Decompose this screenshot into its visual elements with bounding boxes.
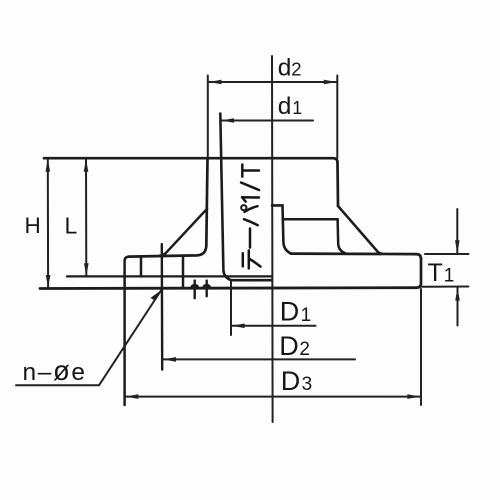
plate top left face and hub base fillet: [129, 158, 208, 256]
centerline: [271, 56, 274, 422]
right bore step: [272, 205, 291, 253]
svg-text:1: 1: [444, 266, 455, 287]
taper text katakana TE stroke group: [241, 165, 261, 269]
plate top right face: [291, 254, 421, 259]
svg-text:1: 1: [301, 305, 312, 326]
left transition slant: [160, 209, 208, 256]
rotated slash of taper label: [241, 183, 259, 191]
hub right outer edge: [336, 163, 339, 207]
plate left edge and D3 left extension: [125, 257, 129, 405]
D1 dimension line: [232, 325, 316, 327]
T1 upper extension: [425, 253, 469, 255]
d2 left extension: [207, 76, 209, 158]
katakana long vowel bar: [249, 229, 252, 248]
T1 upper arrow line: [456, 209, 458, 253]
n-Oe leader line: [16, 291, 161, 386]
svg-text:1: 1: [292, 98, 302, 118]
tapered bore wall with d1 extension and bore bottom fillet: [220, 114, 271, 281]
d2 dimension line: [209, 81, 337, 83]
D3 right extension: [420, 289, 422, 405]
thread end line (L extension): [67, 275, 272, 277]
H dimension line: [47, 159, 49, 288]
svg-text:d: d: [278, 54, 292, 81]
right inner wall with fillet: [338, 219, 347, 253]
katakana pa lower stroke: [244, 219, 258, 225]
katakana pa upper stroke: [245, 206, 258, 212]
svg-text:H: H: [25, 213, 41, 238]
svg-text:L: L: [65, 212, 78, 238]
katakana te short bar: [242, 253, 245, 266]
svg-text:D: D: [279, 331, 299, 361]
d2 right extension: [336, 76, 338, 159]
D3 dimension line: [125, 396, 420, 398]
right transition slant: [338, 206, 383, 254]
bolt circle line / D2 extension: [161, 244, 164, 370]
plate bottom face with H extension: [40, 286, 417, 290]
svg-text:d: d: [278, 93, 292, 120]
rotated digit 1 of taper label: [242, 197, 259, 201]
D2 dimension line: [163, 358, 355, 360]
svg-text:D: D: [280, 297, 300, 327]
katakana te stem hook: [249, 259, 261, 267]
rotated letter T of taper label: [242, 165, 259, 177]
katakana te long bar: [248, 250, 251, 268]
T1 lower arrow line: [457, 288, 459, 326]
svg-text:D: D: [281, 366, 301, 396]
right inner ledge: [283, 218, 338, 221]
bolt hole edge line left: [140, 256, 143, 276]
svg-text:n–øe: n–øe: [23, 355, 87, 386]
svg-text:3: 3: [302, 374, 313, 395]
svg-text:2: 2: [299, 339, 310, 360]
katakana pa handakuten circle: [241, 205, 246, 210]
d1 dimension line: [221, 120, 313, 122]
svg-text:T: T: [428, 259, 443, 287]
svg-text:2: 2: [291, 58, 301, 79]
bolt hole edge line right: [182, 256, 185, 288]
T1 lower extension: [422, 286, 469, 288]
L dimension line: [85, 159, 87, 276]
seat dome symbol 2: [203, 281, 210, 297]
flange hub top face line with H/L extension: [44, 158, 338, 162]
plate right edge: [417, 259, 421, 288]
D1 extension: [230, 280, 232, 335]
seat dome symbol 1: [191, 281, 198, 299]
